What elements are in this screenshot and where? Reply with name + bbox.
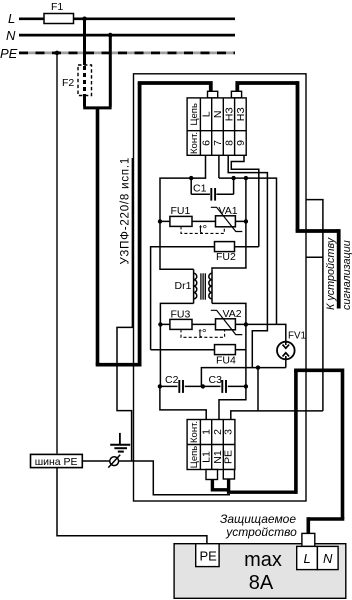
svg-text:PE: PE [223,450,235,464]
svg-text:FU2: FU2 [216,251,236,263]
terminal L on protected device [297,546,318,569]
svg-text:6: 6 [200,140,212,146]
wire rail extension to FV1 [246,324,286,342]
wire thick signal cable elbow [296,229,339,233]
wire PE line (dashed over gray) [19,52,235,55]
node C3 right [244,384,248,388]
svg-text:НЗ: НЗ [223,107,235,121]
wire N drop [109,35,112,107]
node шина PE box [31,454,83,467]
arrester FV1 [277,342,295,360]
wire thick right drop (signal cable) [296,81,300,231]
svg-text:FU3: FU3 [171,309,191,321]
svg-text:Конт.: Конт. [189,421,200,443]
fuse FU4 [151,349,215,351]
wire thick top run from tab2 to right edge [237,83,297,92]
svg-text:L: L [200,111,212,117]
wire N line [19,34,235,37]
node FU1 left [158,219,162,223]
varistor VA2 [216,319,236,330]
varistor VA1 [216,216,236,227]
wire L riser down (FU3 rail to C2) [159,324,161,386]
connector X1 top terminal tabs [208,91,218,98]
svg-text:FV1: FV1 [288,331,306,342]
fuse FU3 [170,319,192,329]
ground earth symbol [119,433,121,445]
wire L1 out [160,386,206,421]
svg-text:L: L [8,11,15,26]
svg-text:НЗ: НЗ [235,107,247,121]
svg-text:1: 1 [200,429,212,435]
wire FV1 bottom rail [285,359,287,367]
wire НЗ9 route to FU2 [231,155,258,246]
svg-text:max: max [244,549,282,571]
svg-text:Защищаемое: Защищаемое [220,512,296,526]
wire PE drop (left, long) [56,53,58,454]
wire НЗ8 route to right side [228,155,267,367]
svg-text:Конт.: Конт. [189,132,200,154]
wire L line [19,17,44,20]
wire contact6 stub + rail A (net L) [160,155,206,221]
bolted joint symbol [110,457,119,466]
svg-text:FU4: FU4 [216,355,236,367]
wire thick top run to tab1 [138,83,211,92]
fuse FU2 [151,247,215,350]
svg-text:УЗПФ-220/8 исп.1: УЗПФ-220/8 исп.1 [120,157,132,265]
svg-text:PE: PE [0,46,18,61]
node rail A / C1 left riser [189,176,193,180]
fuse F2 (dashed optional) [78,65,92,96]
node rail B / C1 right riser [231,176,235,180]
wire below F2 [83,96,86,107]
wire FU1/VA1 rail [160,220,246,222]
wire signal lead A [306,200,323,411]
svg-text:N: N [323,551,333,566]
node FV1 rail / PE riser [256,365,260,369]
svg-text:VA2: VA2 [223,308,242,320]
wire cable elbow into device [96,363,140,367]
svg-text:Dr1: Dr1 [175,280,192,292]
svg-text:PE: PE [200,549,218,564]
node N junction [108,33,113,38]
wire Dr1 right bottom to VA2 right [212,303,246,324]
node protected device (gray box) [174,544,346,599]
svg-text:C3: C3 [209,374,223,386]
svg-text:C2: C2 [165,374,179,386]
svg-text:F2: F2 [62,77,74,89]
svg-text:N: N [212,111,224,119]
svg-text:3: 3 [223,429,235,435]
svg-text:L1: L1 [200,451,212,463]
node VA2 right [244,322,248,326]
connector X1 top terminal block [187,98,246,155]
tab above L/N of protected device [302,533,315,546]
device outer enclosure box [134,74,307,501]
svg-text:шина PE: шина PE [35,456,78,468]
wire input cable trunk (L+N merged) [96,108,100,365]
wire PE bus to device [82,461,230,495]
node VA1 right [244,219,248,223]
svg-text:устройство: устройство [225,525,297,539]
svg-text:C1: C1 [193,183,207,195]
wire N net down to Dr1 right top [212,221,246,269]
wire contact7 stub + rail B (net N) [218,155,220,178]
svg-text:t°: t° [199,326,207,340]
wire PE contact riser + signal loop [231,411,323,421]
wire thick output hook from bottom tabs [212,479,228,490]
terminal N on protected device [317,546,338,569]
node C2/C3 mid [201,384,205,388]
svg-text:L: L [304,551,311,566]
svg-text:7: 7 [212,140,224,146]
wire thick output cable right loop [294,370,298,494]
thermal link t° (FU3-VA2) [181,329,225,337]
wire FU3/VA2 rail [160,323,246,325]
wire case earth link (left jog) [117,158,132,461]
svg-text:N: N [6,28,16,43]
wire L drop to F2 [83,19,86,65]
svg-text:Цепь: Цепь [189,103,200,125]
connector X2 bottom tabs [206,470,218,480]
svg-text:К устройству: К устройству [325,237,337,310]
wire N riser down (FU3 rail to N1 out) [245,324,247,386]
node C2 left [158,384,162,388]
wire L net down to Dr1 left top [160,221,194,269]
node FU3 left [158,322,162,326]
terminal PE on protected device [196,544,219,567]
svg-text:9: 9 [235,140,247,146]
svg-text:VA1: VA1 [219,205,238,217]
wire thick output cable bottom run [227,491,296,494]
node PE junction [55,51,60,56]
connector X2 bottom terminal block [187,420,235,470]
fuse F1 [44,14,74,24]
svg-text:F1: F1 [51,1,63,13]
svg-text:t°: t° [199,222,207,236]
thermal link t° (FU1-VA1) [181,226,224,233]
svg-text:FU1: FU1 [171,205,191,217]
fuse FU1 [170,216,192,226]
svg-text:сигнализации: сигнализации [341,240,352,310]
wire L+N junction bar [83,106,111,109]
wire Dr1 left bottom to FU3 [160,303,193,324]
svg-text:8: 8 [223,140,235,146]
svg-text:Цепь: Цепь [189,446,200,468]
wire signal lead B [306,256,323,258]
wire thick signal cable end (to signalling device) [337,229,341,308]
wire thick riser along device left [138,83,142,367]
svg-text:8А: 8А [249,572,274,594]
node rail B / VA1 riser [244,176,248,180]
node L junction [82,17,87,22]
